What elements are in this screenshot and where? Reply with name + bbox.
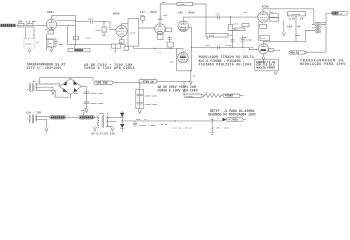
svg-text:6CH6: 6CH6 — [262, 6, 269, 9]
mains pill A — [50, 116, 66, 119]
ground rail right — [138, 109, 141, 114]
svg-text:C05 - 1W: C05 - 1W — [136, 118, 147, 121]
wire B+ top — [160, 3, 177, 5]
svg-text:100: 100 — [169, 61, 174, 64]
capacitor C1 box — [18, 24, 24, 27]
node bus/feed junction — [75, 44, 76, 45]
wire V4 cathode to follower rail — [189, 27, 192, 47]
diode bridge diamond — [60, 79, 82, 95]
electrolytic can box — [136, 89, 144, 108]
wire B1 to V3 grid — [139, 27, 155, 29]
V1 plate wire up and right — [52, 15, 76, 19]
components right of V6 — [270, 14, 279, 17]
pentode V6 oscillator — [258, 12, 269, 23]
svg-text:10n: 10n — [88, 17, 93, 20]
svg-text:470: 470 — [270, 11, 275, 14]
svg-text:+50MF-450V: +50MF-450V — [90, 102, 104, 105]
vertical feed to pill A — [183, 81, 185, 95]
resistor 470k grid V2 — [95, 22, 106, 32]
resistor 470k plate load box — [177, 2, 193, 6]
svg-text:450V: 450V — [73, 92, 79, 95]
svg-text:+10MF-450V: +10MF-450V — [144, 103, 158, 106]
resistor pill 500 — [94, 81, 113, 85]
wire pill B stub — [240, 95, 244, 97]
svg-text:4 700Ω: 4 700Ω — [228, 119, 238, 122]
ground stamp — [274, 71, 277, 75]
coupling capacitor 10n — [76, 17, 104, 23]
svg-text:100: 100 — [215, 12, 220, 15]
wire box to corner — [193, 4, 207, 33]
svg-text:16k: 16k — [205, 44, 210, 47]
V3 plate cap 100 and feed — [158, 4, 168, 24]
crystal unit X1 dashed box — [24, 39, 35, 49]
svg-text:471k: 471k — [233, 22, 239, 25]
box below B1 — [124, 47, 129, 51]
wire bottom of cathode net — [47, 46, 56, 48]
ground T2 left — [93, 126, 96, 131]
svg-text:500k: 500k — [209, 34, 215, 37]
dummy load pill — [289, 51, 307, 55]
cathode resistor 47 — [48, 30, 54, 34]
svg-text:6AB4: 6AB4 — [47, 11, 54, 14]
wire T1 primary top to pill row — [40, 78, 93, 84]
wire pill to pill — [66, 116, 79, 118]
wire V6b plate to T3 bottom — [264, 41, 306, 43]
resistor 100k below V3 — [157, 35, 163, 40]
svg-text:100: 100 — [261, 37, 266, 40]
resistor 470 below — [167, 42, 173, 47]
svg-text:+50MF-450V: +50MF-450V — [90, 92, 104, 95]
connector box end of bus — [112, 44, 121, 53]
V2 cathode resistor below — [121, 37, 123, 40]
ground below crystal — [28, 48, 31, 52]
svg-text:47k: 47k — [140, 14, 145, 17]
resistor pill A 4700 — [184, 94, 205, 98]
capacitor 15nF — [54, 39, 64, 47]
resistor 470+470k box — [233, 28, 245, 31]
wire bridge output to rail — [82, 86, 87, 88]
resistor 47k small top — [140, 14, 145, 24]
svg-text:203X4: 203X4 — [274, 49, 281, 52]
wire V1 upper output — [57, 20, 76, 22]
IF transformer box 470k — [128, 19, 139, 46]
svg-text:150 - 450V: 150 - 450V — [178, 12, 195, 15]
vertical with cap — [231, 31, 233, 48]
svg-text:470: 470 — [234, 28, 239, 31]
wire T1 secondary top to bridge — [36, 84, 60, 87]
wire T1 center tap — [36, 87, 54, 90]
wire drop to ground — [211, 119, 213, 132]
wire pill2 to B+ arrow — [157, 80, 192, 82]
wire bus vertical left — [67, 25, 69, 44]
wire V6b grid line — [192, 47, 259, 49]
svg-text:LIG: LIG — [80, 109, 85, 112]
triode V4 — [178, 21, 189, 32]
capacitor can 1 — [137, 94, 159, 97]
wire V4 coupling line — [183, 17, 257, 21]
wire T0 lower to cord arrow — [35, 119, 46, 127]
potentiometer 500k box — [206, 33, 228, 39]
resistor pill B — [223, 94, 240, 98]
svg-text:TRAF. A: TRAF. A — [99, 112, 109, 115]
wire common cathode bus V3/V4 — [134, 47, 184, 49]
svg-text:470R 1W: 470R 1W — [143, 80, 154, 83]
svg-text:6V 0,6-11F-110: 6V 0,6-11F-110 — [91, 133, 115, 136]
capacitor C filter 2 — [84, 102, 105, 105]
cathode line down — [46, 34, 48, 51]
microphone input transducer — [1, 24, 16, 27]
svg-text:6,3V 4A - 5V 2A: 6,3V 4A - 5V 2A — [172, 127, 192, 130]
resistor zigzag — [205, 94, 224, 97]
speaker box top right — [288, 12, 306, 17]
node heater tap — [174, 120, 175, 121]
resistor box 500k small — [242, 24, 249, 27]
B+ stub arrow — [189, 71, 192, 84]
svg-text:1W JPN - 100V: 1W JPN - 100V — [212, 127, 230, 130]
wire pill B to T2 — [94, 116, 98, 118]
triode V2 — [116, 25, 127, 36]
wire T3 feed from top — [313, 9, 315, 25]
capacitor C filter 1 — [83, 88, 104, 95]
mains pill B — [79, 116, 94, 119]
mains transformer T0 — [26, 111, 41, 124]
svg-text:FLUINDO PAULISTA OU-1000: FLUINDO PAULISTA OU-1000 — [199, 62, 252, 66]
main low bus — [122, 120, 222, 122]
wire T3 right to antenna pill — [326, 13, 332, 52]
svg-text:117V +/- 160+160V: 117V +/- 160+160V — [26, 66, 61, 70]
wire V1 anode to volume bus — [57, 24, 75, 26]
node bus junction right — [211, 119, 213, 121]
power transformer T1 HV — [27, 80, 41, 91]
svg-text:40k: 40k — [244, 36, 249, 39]
wire junction to V2 grid — [104, 22, 116, 30]
capacitor 100pF — [239, 35, 254, 49]
ground chassis right — [210, 132, 215, 134]
svg-text:150 - 4V: 150 - 4V — [287, 26, 301, 29]
pentode V6b modulator output — [259, 44, 269, 54]
filter rail right — [139, 83, 141, 109]
capacitor can 2 — [137, 102, 159, 106]
V6 plate wire to T3 — [263, 9, 314, 12]
wire down with arrow — [282, 20, 285, 35]
svg-text:47k: 47k — [162, 1, 167, 4]
svg-text:470k: 470k — [226, 44, 232, 47]
svg-text:4700R: 4700R — [225, 95, 233, 98]
wire right vertical to dummy load — [307, 51, 326, 53]
wire pill C stub — [243, 118, 246, 120]
svg-text:47nF: 47nF — [85, 37, 91, 40]
wire pill1 to pill2 — [113, 82, 139, 84]
svg-text:6AV6: 6AV6 — [113, 12, 120, 15]
svg-text:100: 100 — [163, 14, 168, 17]
svg-text:1,5V - 5V: 1,5V - 5V — [288, 18, 303, 21]
wire volume bus — [68, 45, 127, 47]
svg-text:450V: 450V — [295, 34, 301, 37]
capacitor on bus — [133, 121, 156, 127]
resistor 2k — [48, 39, 54, 46]
filament transformer T2 — [98, 112, 116, 128]
svg-text:470k: 470k — [180, 3, 186, 6]
dense stamp block — [255, 59, 279, 71]
ground cathode — [50, 47, 53, 52]
triode V1 — [46, 19, 56, 30]
wire second drop — [295, 16, 297, 42]
transformer T3 modulation — [305, 23, 326, 41]
svg-text:SEGUNDO DO MODULADOR 100V: SEGUNDO DO MODULADOR 100V — [208, 112, 256, 116]
node junction 471k — [230, 16, 231, 17]
wire box3 to vertical — [228, 34, 232, 36]
components right of V3: resistor 470k — [166, 28, 172, 32]
svg-text:500 10W: 500 10W — [97, 82, 108, 85]
node grid junction V2 — [103, 21, 104, 22]
ground below V6b — [262, 54, 265, 61]
svg-text:10k 4Ω: 10k 4Ω — [159, 123, 168, 126]
vertical feed line x=75.6 — [75, 15, 77, 44]
svg-text:470k: 470k — [95, 29, 101, 32]
wire under V5 — [177, 47, 192, 71]
wire mic to V1 grid — [16, 24, 47, 26]
svg-text:CURVA E 100V VER CAPO: CURVA E 100V VER CAPO — [158, 89, 198, 93]
switch symbol — [80, 109, 85, 115]
svg-text:MODULAÇÃO PARA 100V: MODULAÇÃO PARA 100V — [300, 61, 346, 66]
wire cathode net — [47, 38, 56, 40]
potentiometer volume — [68, 45, 90, 52]
resistor right of V6b — [269, 48, 274, 51]
svg-text:40m DL: 40m DL — [290, 52, 300, 55]
svg-text:REGULADOR: REGULADOR — [315, 21, 328, 24]
svg-text:4,5 mH: 4,5 mH — [25, 20, 35, 23]
svg-text:CURVA E 750V APR CURVA: CURVA E 750V APR CURVA — [84, 66, 135, 70]
ground center tap — [51, 90, 54, 95]
wire box2 left connect — [231, 30, 234, 32]
capacitor small right — [168, 36, 172, 42]
wire T0 to mains pill — [35, 115, 50, 117]
svg-text:110 / 220: 110 / 220 — [26, 111, 41, 115]
svg-text:1 W: 1 W — [157, 51, 162, 54]
ground V2 grid resistor — [102, 32, 105, 36]
inductor L1 box — [27, 24, 33, 27]
ground T2 right — [111, 127, 114, 132]
triode V3 — [155, 24, 165, 34]
wire V5 grid feed — [176, 48, 178, 71]
svg-text:150: 150 — [17, 20, 22, 23]
svg-text:470k: 470k — [130, 31, 136, 34]
antenna pill — [332, 11, 349, 15]
node cathode junction — [46, 38, 47, 39]
arrow mains cord — [45, 128, 48, 132]
pentode V5 — [178, 48, 189, 63]
svg-text:NUCLEO FERRI: NUCLEO FERRI — [256, 67, 275, 70]
arrow into pill C — [223, 118, 227, 122]
wire T1 secondary bottom — [36, 90, 71, 97]
resistor pill C — [226, 117, 243, 121]
wire V2 plate to IF box — [122, 23, 128, 25]
capacitor 100 series — [215, 12, 220, 19]
node V5 bottom junction — [190, 70, 191, 71]
filter rail left — [86, 87, 88, 109]
wire taps down to crystal unit — [26, 27, 35, 39]
resistor 1M on feed line — [73, 36, 78, 40]
svg-text:+100MF + 450V: +100MF + 450V — [138, 124, 156, 127]
capacitor series on grid line — [218, 46, 220, 50]
svg-text:41140: 41140 — [25, 43, 32, 46]
svg-text:P.FALANTE: P.FALANTE — [289, 13, 302, 16]
wire bridge top vertex to feed — [70, 78, 72, 80]
node pill2 drop — [139, 82, 140, 83]
svg-text:+50MF-450V: +50MF-450V — [144, 95, 158, 98]
V6 cathode chain — [257, 22, 259, 42]
ground rail left — [85, 109, 88, 113]
bias diode chain — [116, 111, 124, 132]
svg-text:4700R: 4700R — [186, 95, 193, 98]
resistor pill 470R — [139, 80, 157, 84]
resistor 471k — [228, 17, 238, 31]
